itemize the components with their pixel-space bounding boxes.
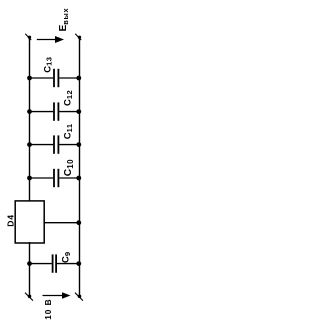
capacitor C13: [30, 69, 80, 87]
capacitor C9: [30, 254, 80, 272]
svg-text:D4: D4: [6, 214, 16, 227]
terminal tick bottom-right: [75, 293, 83, 301]
wire: left rail upper segment: [29, 37, 31, 201]
junction dot C9 left: [27, 261, 32, 266]
junction dot D4 output: [76, 220, 81, 225]
terminal tick top-left: [25, 34, 31, 40]
regulator D4: [15, 201, 44, 243]
wire: D4 output to right rail: [44, 222, 79, 224]
terminal tick bottom-left: [25, 293, 33, 301]
junction dot C10 right: [76, 176, 81, 181]
capacitor C10: [30, 169, 80, 187]
capacitor C12: [30, 102, 80, 120]
junction dot C13 left: [27, 76, 32, 81]
wire: left rail lower segment: [29, 242, 31, 296]
capacitor C11: [30, 135, 80, 153]
junction dot C9 right: [76, 261, 81, 266]
svg-text:С12: С12: [62, 90, 74, 106]
arrow from 10V input (bottom): [43, 292, 71, 298]
svg-text:С11: С11: [62, 123, 74, 139]
svg-text:10 В: 10 В: [43, 298, 53, 319]
svg-text:Евых: Евых: [58, 7, 70, 31]
svg-text:С13: С13: [42, 57, 53, 73]
junction dot C13 right: [76, 76, 81, 81]
wire: right rail: [79, 37, 81, 296]
svg-text:С10: С10: [63, 159, 75, 176]
terminal tick top-right: [75, 34, 81, 40]
junction dot C10 left: [27, 176, 32, 181]
svg-text:С9: С9: [60, 252, 72, 264]
junction dot C12 left: [27, 109, 32, 114]
junction dot C11 left: [27, 142, 32, 147]
arrow to output (top): [37, 36, 64, 43]
junction dot C12 right: [76, 109, 81, 114]
junction dot C11 right: [76, 142, 81, 147]
